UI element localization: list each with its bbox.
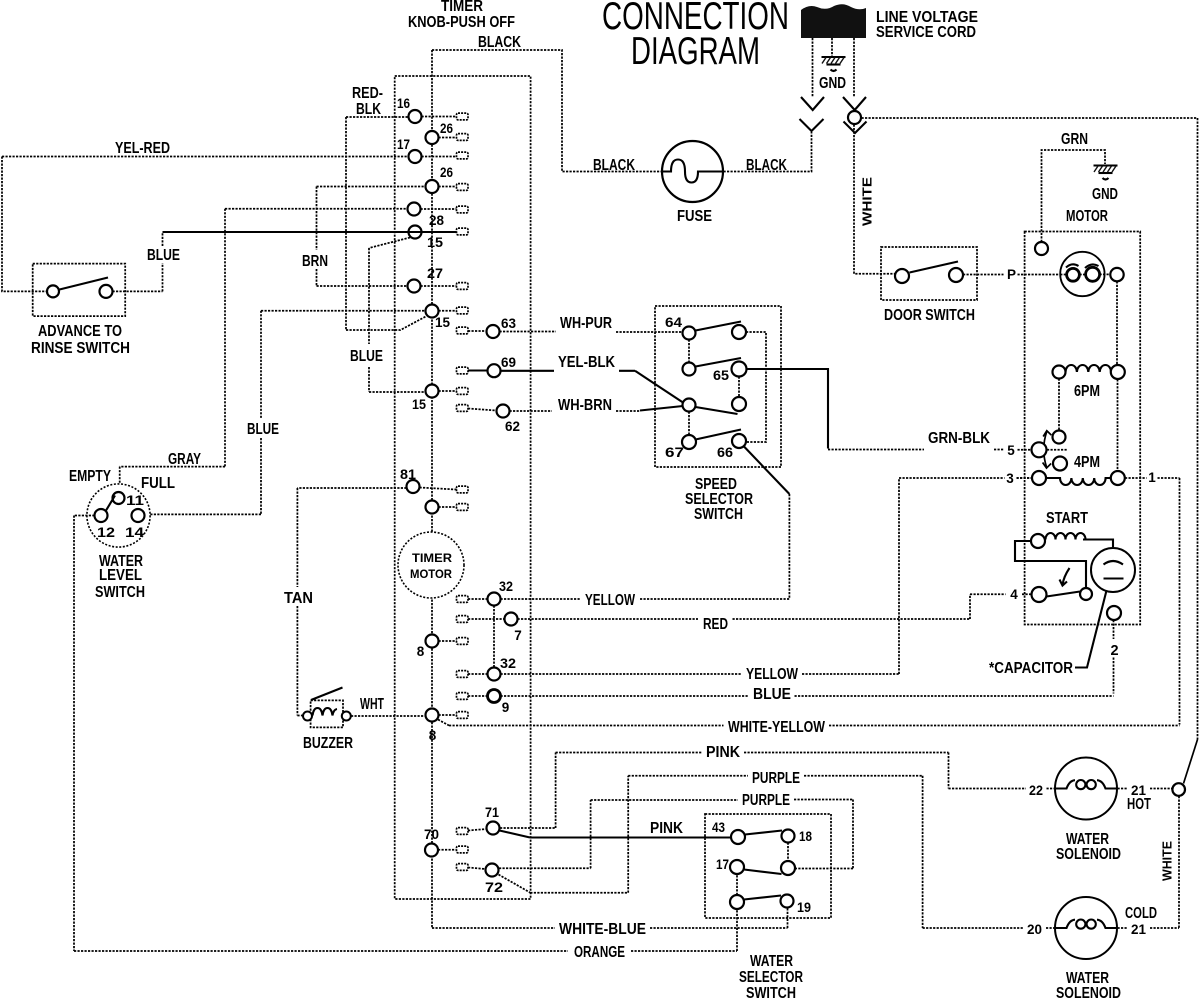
timer terminal 26a: [426, 131, 439, 144]
svg-text:15: 15: [412, 397, 426, 412]
speed selector pole top right: [732, 325, 746, 339]
svg-text:*CAPACITOR: *CAPACITOR: [989, 660, 1073, 677]
svg-text:BUZZER: BUZZER: [303, 735, 353, 752]
timer terminal 63: [487, 325, 500, 338]
timer terminal 8b: [426, 709, 439, 722]
timer terminal 72: [486, 864, 499, 877]
capacitor leader line: [1075, 591, 1107, 668]
svg-text:15: 15: [435, 315, 450, 330]
rinse switch lever: [60, 278, 109, 290]
svg-text:65: 65: [713, 368, 730, 383]
rinse switch contact right: [100, 285, 113, 298]
svg-text:TIMER: TIMER: [441, 0, 483, 15]
6PM coil left terminal: [1053, 366, 1066, 379]
wire motor right column upper: [1116, 281, 1118, 365]
svg-text:WATER: WATER: [750, 953, 793, 970]
wire pink solid 71 to 43: [500, 831, 732, 838]
svg-text:64: 64: [665, 315, 683, 330]
motor speed contact 4PM side: [1053, 457, 1067, 471]
4PM coil: [1047, 478, 1112, 485]
timer terminal 17: [409, 150, 422, 163]
svg-text:81: 81: [400, 467, 417, 482]
tab row 8b: [457, 712, 469, 719]
buzzer terminal left: [303, 712, 312, 721]
timer terminal 71: [487, 822, 500, 835]
svg-text:32: 32: [499, 579, 513, 594]
svg-text:RINSE SWITCH: RINSE SWITCH: [31, 340, 130, 357]
svg-text:PINK: PINK: [650, 820, 684, 837]
wire 28 to tab solid: [422, 231, 457, 233]
capacitor plate bottom: [1104, 577, 1124, 579]
svg-text:BLUE: BLUE: [753, 686, 791, 703]
tab row 71: [457, 828, 469, 835]
wire purple upper: [628, 776, 1055, 928]
wire 22 into hot solenoid: [1047, 788, 1056, 790]
svg-text:PINK: PINK: [706, 744, 741, 761]
tab row 27: [457, 283, 469, 290]
svg-text:GND: GND: [819, 75, 846, 92]
node service cord white terminal: [848, 111, 861, 124]
speed selector terminal 67: [682, 435, 696, 449]
svg-text:22: 22: [1029, 783, 1043, 798]
timer terminal 28: [409, 226, 422, 239]
6PM coil right terminal: [1111, 365, 1125, 379]
wire dashed 64b to 66 via right: [746, 332, 766, 442]
svg-text:4PM: 4PM: [1074, 454, 1100, 471]
tab row 26a: [457, 134, 469, 141]
svg-text:WHT: WHT: [360, 696, 384, 713]
svg-text:GND: GND: [1092, 186, 1118, 203]
timer terminal 32a: [488, 593, 501, 606]
wire 8b to tab: [439, 714, 457, 716]
svg-text:62: 62: [505, 419, 520, 434]
wire 16 to tab: [422, 116, 457, 118]
hot water solenoid coil: [1056, 780, 1118, 789]
buzzer terminal right: [342, 712, 351, 721]
wire grn-blk: [828, 449, 1004, 451]
wire 64 to mid-left: [688, 340, 690, 363]
motor brush contact right: [1086, 267, 1100, 281]
wire 2 down from capacitor: [1113, 620, 1115, 694]
tab row 72: [457, 864, 469, 871]
svg-text:DIAGRAM: DIAGRAM: [631, 30, 760, 73]
svg-text:SERVICE CORD: SERVICE CORD: [876, 24, 976, 41]
tab row 9: [457, 693, 469, 700]
svg-text:3: 3: [1006, 471, 1014, 486]
wire white to right edge: [862, 118, 1198, 740]
water selector lever 43: [745, 831, 782, 835]
start switch arrow: [1063, 568, 1070, 585]
svg-text:YEL-RED: YEL-RED: [115, 140, 170, 157]
svg-text:20: 20: [1027, 922, 1042, 937]
svg-text:16: 16: [397, 96, 410, 111]
wire 26b to tab: [439, 186, 457, 188]
buzzer box: [311, 700, 343, 727]
wire wh-pur: [468, 331, 683, 332]
svg-text:FUSE: FUSE: [677, 208, 712, 225]
timer terminal 16: [409, 110, 422, 123]
motor terminal 4: [1032, 587, 1047, 602]
wire 70 to tab: [438, 849, 457, 851]
motor main winding body: [1060, 252, 1104, 296]
fuse F1 body: [662, 141, 723, 202]
speed selector lever 64: [696, 322, 742, 331]
wire 8a to tab: [439, 640, 457, 642]
fuse element: [663, 160, 723, 183]
tab row 17: [457, 152, 469, 159]
svg-text:KNOB-PUSH OFF: KNOB-PUSH OFF: [408, 14, 515, 31]
wire cold 21 to junction: [1118, 927, 1180, 929]
svg-text:EMPTY: EMPTY: [69, 468, 112, 485]
water selector terminal 18: [782, 830, 795, 843]
wire wht buzzer to 8b: [351, 715, 426, 717]
door switch contact right: [949, 268, 963, 282]
wire blue from 28 diagonal: [369, 238, 410, 249]
wire 17 to tab: [422, 156, 457, 158]
svg-text:MOTOR: MOTOR: [410, 567, 452, 581]
wire row5 to tab: [421, 208, 457, 210]
wire start bracket: [1015, 541, 1086, 588]
buzzer lever: [311, 688, 343, 701]
water selector terminal 17: [730, 860, 744, 874]
svg-text:27: 27: [427, 266, 443, 281]
water level terminal 11: [113, 492, 125, 504]
wire 66 riser to yellow: [788, 494, 790, 599]
wire 6PM left down to speed contact: [1058, 379, 1060, 431]
wire 81 to tab: [420, 488, 457, 490]
start switch lever: [1047, 592, 1081, 597]
wire plug ground stub: [831, 38, 833, 56]
svg-text:RED: RED: [703, 616, 728, 633]
svg-text:GRN-BLK: GRN-BLK: [928, 430, 991, 447]
tab row 32a: [457, 596, 469, 603]
svg-text:32: 32: [500, 656, 516, 671]
svg-text:YELLOW: YELLOW: [585, 592, 635, 609]
wire white diagonal into junction: [1184, 740, 1198, 784]
svg-text:WHITE-YELLOW: WHITE-YELLOW: [728, 719, 825, 736]
svg-text:6PM: 6PM: [1074, 383, 1100, 400]
timer terminal 27: [408, 280, 421, 293]
svg-text:SELECTOR: SELECTOR: [739, 969, 803, 986]
wire fuse to plug left pin: [724, 132, 812, 172]
timer terminal 8a: [426, 635, 439, 648]
svg-text:BRN: BRN: [302, 253, 328, 270]
svg-text:MOTOR: MOTOR: [1066, 208, 1108, 225]
svg-text:PURPLE: PURPLE: [752, 770, 800, 787]
svg-text:67: 67: [665, 445, 684, 460]
svg-text:26: 26: [440, 121, 453, 136]
svg-text:ORANGE: ORANGE: [574, 944, 625, 961]
svg-text:43: 43: [712, 820, 725, 835]
svg-text:7: 7: [514, 628, 522, 643]
motor terminal 5: [1032, 442, 1047, 457]
svg-text:BLACK: BLACK: [593, 157, 636, 174]
timer terminal 9: [488, 690, 501, 703]
svg-text:DOOR SWITCH: DOOR SWITCH: [884, 307, 975, 324]
svg-text:19: 19: [797, 900, 811, 915]
svg-text:18: 18: [799, 829, 812, 844]
speed selector lever 67: [696, 430, 742, 440]
timer terminal 7: [505, 613, 518, 626]
6PM coil: [1066, 365, 1112, 372]
water selector lever 19: [744, 896, 781, 900]
timer terminal 15b: [426, 305, 439, 318]
svg-text:BLUE: BLUE: [350, 348, 383, 365]
tab row 26b: [457, 184, 469, 191]
wire yel-blk: [468, 371, 683, 403]
speed selector terminal 65: [732, 362, 747, 377]
wire timer common vertical: [431, 50, 433, 928]
wire orange: [74, 874, 737, 951]
wire inside motor to brushes: [1060, 273, 1110, 275]
svg-text:14: 14: [125, 525, 145, 540]
svg-text:YEL-BLK: YEL-BLK: [558, 354, 616, 371]
svg-text:TAN: TAN: [284, 590, 313, 607]
svg-text:71: 71: [485, 805, 499, 820]
svg-text:26: 26: [440, 165, 453, 180]
tab row 15c: [457, 388, 469, 395]
wire hot 21 to junction: [1118, 788, 1173, 790]
wire motor right column lower: [1117, 379, 1119, 471]
motor brush wiper right: [1085, 264, 1099, 268]
wire junction down to cold: [1178, 796, 1180, 928]
svg-text:2: 2: [1110, 643, 1118, 659]
svg-text:ADVANCE TO: ADVANCE TO: [38, 323, 122, 340]
speed selector terminal 64: [683, 327, 696, 340]
wire red: [468, 594, 1031, 619]
timer terminal row5: [408, 203, 421, 216]
water level switch lever: [106, 496, 115, 511]
motor speed contact 6PM side: [1053, 431, 1066, 444]
wire stub from 5: [1047, 449, 1068, 451]
timer terminal 81: [407, 480, 420, 493]
tab row 63: [457, 327, 469, 334]
wire white-yellow: [438, 720, 1180, 726]
cold water solenoid coil: [1056, 920, 1118, 929]
wire 3 into motor: [1017, 477, 1032, 479]
wire wh-brn diagonal: [640, 406, 683, 411]
speed selector lever 65: [696, 358, 742, 367]
wire 72 diag to purple upper riser: [499, 776, 629, 893]
motor brush contact left: [1067, 268, 1080, 281]
svg-text:17: 17: [716, 857, 729, 872]
tab row 70: [457, 846, 469, 853]
tab row 8a: [457, 638, 469, 645]
timer motor body: [398, 532, 464, 598]
wire rinse switch to blue riser: [113, 290, 163, 292]
wire 71 to tab: [468, 829, 487, 831]
svg-text:28: 28: [429, 213, 444, 228]
wire black from timer to fuse: [432, 50, 662, 172]
speed selector terminal mid-right: [732, 397, 746, 411]
svg-text:66: 66: [717, 445, 734, 460]
tab row 7: [457, 616, 469, 623]
water selector lever 17: [744, 870, 782, 875]
wire blue riser: [162, 232, 164, 291]
svg-text:SWITCH: SWITCH: [694, 506, 743, 523]
speed selector switch box: [655, 306, 781, 467]
wire start coil to capacitor: [1083, 540, 1113, 548]
wire 15c to tab: [439, 390, 457, 392]
svg-text:72: 72: [485, 880, 503, 895]
svg-text:15: 15: [427, 235, 444, 250]
svg-text:5: 5: [1007, 443, 1015, 458]
svg-text:12: 12: [97, 525, 115, 540]
wire brn loop: [317, 187, 426, 287]
svg-text:COLD: COLD: [1125, 905, 1157, 922]
door switch box: [881, 247, 977, 300]
speed selector terminal mid-left upper: [683, 363, 696, 376]
water selector terminal 43: [731, 830, 745, 844]
capacitor plate top: [1104, 561, 1124, 565]
wire 72 to purple lower: [499, 800, 853, 869]
timer terminal 70: [425, 844, 438, 857]
svg-text:SWITCH: SWITCH: [746, 985, 796, 1000]
advance to rinse switch box: [33, 264, 126, 317]
timer terminal 62: [497, 405, 510, 418]
line voltage service cord plug body: [801, 4, 866, 38]
timer terminal row14: [426, 501, 439, 514]
door switch lever: [910, 262, 959, 273]
svg-text:BLACK: BLACK: [478, 34, 522, 51]
wire red-blk to 15b: [346, 317, 426, 331]
wire blue to 28 solid: [163, 231, 457, 233]
svg-text:HOT: HOT: [1127, 796, 1151, 813]
svg-text:69: 69: [501, 355, 516, 370]
capacitor C1 body: [1091, 548, 1135, 592]
start switch fixed contact: [1080, 588, 1092, 600]
motor box: [1025, 232, 1141, 625]
wire red-blk corner: [346, 117, 409, 330]
water selector terminal 19L: [730, 895, 744, 909]
svg-text:FULL: FULL: [141, 475, 175, 492]
tab row14: [457, 504, 469, 511]
svg-text:SOLENOID: SOLENOID: [1056, 985, 1121, 1000]
timer box: [395, 76, 531, 899]
svg-text:WHITE: WHITE: [860, 177, 875, 226]
tab row 16: [457, 113, 469, 120]
speed selector hub: [683, 399, 696, 412]
capacitor terminal 2: [1107, 606, 1121, 620]
svg-text:GRN: GRN: [1061, 131, 1088, 148]
4PM coil right terminal: [1111, 471, 1125, 485]
wire P into motor: [1018, 274, 1061, 276]
svg-text:TIMER: TIMER: [412, 551, 452, 565]
node white junction: [1172, 783, 1185, 796]
speed selector terminal 66: [732, 434, 746, 448]
wire tan from 81: [297, 488, 406, 716]
water selector terminal 18b: [781, 861, 795, 875]
wire GRN from motor to ground: [1042, 150, 1106, 242]
svg-text:BLUE: BLUE: [147, 247, 180, 264]
wire white plug to door switch: [854, 125, 895, 274]
cold water solenoid body: [1055, 897, 1117, 959]
door switch contact left: [895, 269, 909, 283]
ground symbol at plug: [822, 57, 846, 71]
wire 65 to mid-right: [738, 377, 740, 398]
speed switch travel arrow: [1043, 431, 1052, 468]
speed selector lever hub: [696, 407, 738, 414]
timer terminal 69: [488, 364, 501, 377]
svg-text:70: 70: [424, 827, 439, 842]
tab row 32b: [457, 671, 469, 678]
water selector terminal 19: [781, 895, 794, 908]
motor terminal 3: [1032, 471, 1046, 485]
svg-text:WH-BRN: WH-BRN: [558, 397, 612, 414]
connector arrow right male: [843, 97, 866, 110]
ground symbol at motor: [1094, 166, 1118, 180]
wire 15b to tab: [439, 310, 457, 312]
wire 72 to tab: [468, 868, 486, 870]
svg-text:P: P: [1007, 267, 1016, 282]
rinse switch contact left: [47, 285, 59, 297]
wire row14 to tab: [439, 506, 457, 508]
wire yellow upper: [468, 598, 789, 600]
svg-text:RED-: RED-: [352, 85, 383, 102]
wire 66 diagonal down: [744, 447, 789, 495]
svg-text:WH-PUR: WH-PUR: [560, 315, 612, 332]
svg-text:9: 9: [502, 700, 510, 715]
tab row 81: [457, 486, 469, 493]
wire door switch to motor P: [963, 274, 1004, 276]
water selector switch box: [705, 814, 831, 918]
wire 18 to 18b: [787, 843, 789, 862]
connector arrow left female: [800, 119, 824, 131]
wire 1 down right side: [1179, 478, 1181, 725]
motor brush wiper left: [1066, 264, 1079, 267]
svg-text:PURPLE: PURPLE: [742, 792, 790, 809]
water level switch body: [87, 484, 150, 547]
svg-text:WHITE-BLUE: WHITE-BLUE: [559, 921, 646, 938]
tab row 69: [457, 367, 469, 374]
svg-text:WHITE: WHITE: [1160, 841, 1175, 881]
svg-text:BLK: BLK: [356, 101, 382, 118]
timer terminal 15c: [426, 385, 439, 398]
wire 65 to GRN-BLK: [747, 369, 829, 449]
wire yel-red down to rinse switch: [2, 157, 47, 292]
motor terminal after winding: [1110, 268, 1123, 281]
wire 27 to tab: [421, 285, 457, 287]
wire pink to hot solenoid: [500, 753, 1026, 829]
wire yellow lower: [468, 478, 1031, 674]
svg-text:YELLOW: YELLOW: [746, 666, 798, 683]
wire yel-red: [2, 156, 409, 158]
svg-text:17: 17: [397, 137, 410, 152]
wire GRN-BLK into 5: [1018, 449, 1032, 451]
motor green terminal: [1035, 242, 1048, 255]
wire plug right pin: [853, 38, 855, 97]
svg-text:SOLENOID: SOLENOID: [1056, 846, 1121, 863]
tab row 28: [457, 228, 469, 235]
start coil: [1046, 533, 1086, 540]
wire 32a to 32b vertical: [493, 606, 495, 668]
wire motor 1 to right edge: [1125, 477, 1180, 479]
buzzer coil: [313, 708, 338, 716]
wire gray riser: [120, 209, 408, 492]
water level terminal 14: [132, 509, 145, 522]
start coil left terminal: [1031, 534, 1045, 548]
tab row 62: [457, 405, 469, 412]
svg-text:BLUE: BLUE: [247, 421, 279, 438]
svg-text:SWITCH: SWITCH: [95, 584, 145, 601]
svg-text:63: 63: [501, 316, 516, 331]
svg-text:8: 8: [429, 728, 437, 743]
connector arrow right female: [844, 122, 867, 134]
wire blue to capacitor: [468, 695, 1114, 697]
tab row 15b: [457, 307, 469, 314]
wire hub to 67: [688, 412, 690, 436]
wire 12 to left riser: [74, 516, 95, 952]
